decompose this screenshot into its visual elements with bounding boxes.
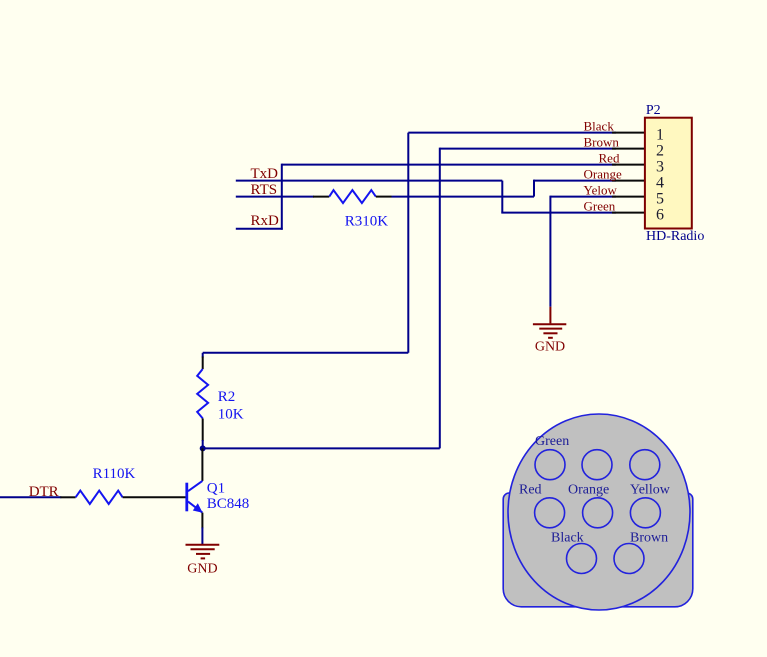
svg-text:GND: GND	[187, 562, 217, 577]
svg-text:R310K: R310K	[345, 214, 389, 230]
junction dot	[200, 445, 206, 451]
svg-text:TxD: TxD	[251, 166, 279, 182]
pin stub 4	[612, 180, 645, 182]
wire RxD stub	[236, 228, 283, 230]
svg-text:Brown: Brown	[630, 531, 668, 546]
resistor R2 zigzag	[197, 369, 208, 418]
wire TxD stub	[236, 180, 503, 182]
connector P2 body	[645, 118, 692, 229]
resistor R2 lead bottom	[202, 418, 204, 441]
svg-text:BC848: BC848	[207, 496, 250, 512]
ground symbol Q1 line3	[196, 553, 210, 555]
svg-text:1: 1	[656, 127, 664, 144]
pin hole top-center	[582, 450, 612, 480]
connector J1 face (DIN plug drawing) body rounded rect	[503, 493, 693, 607]
wire pin1 vertical drop	[407, 133, 409, 353]
svg-text:RTS: RTS	[251, 182, 278, 198]
svg-text:Green: Green	[535, 434, 569, 449]
svg-text:R110K: R110K	[93, 466, 136, 482]
svg-text:Orange: Orange	[568, 483, 609, 498]
wire R2 top corner	[202, 353, 204, 358]
ground symbol radio line4	[548, 337, 553, 339]
wire TxD to pin3	[282, 164, 616, 166]
pin stub 3	[612, 164, 645, 166]
wire to pin6	[501, 212, 616, 214]
wire emitter to ground	[201, 527, 203, 544]
transistor Q1 emitter arrow	[193, 503, 203, 512]
ground symbol radio line1	[533, 323, 566, 325]
svg-text:4: 4	[656, 175, 664, 192]
resistor R2 lead top	[202, 357, 204, 370]
resistor R3 zigzag	[329, 190, 376, 203]
transistor Q1 base bar	[185, 483, 188, 512]
svg-text:P2: P2	[646, 103, 661, 118]
svg-text:6: 6	[656, 207, 664, 224]
wire emitter	[201, 513, 203, 529]
wire pin2 vertical	[439, 148, 441, 449]
wire pin5 to GND vertical	[549, 196, 551, 307]
wire R2 to junction	[202, 440, 204, 448]
svg-text:GND: GND	[535, 340, 565, 355]
resistor R1 zigzag	[76, 491, 123, 504]
wire DTR	[0, 496, 61, 498]
wire vertical TxD drop	[501, 181, 503, 213]
svg-text:Brown: Brown	[584, 134, 620, 149]
pin stub 6	[612, 212, 645, 214]
ground symbol radio lead	[549, 307, 551, 324]
wire to pin2	[440, 148, 616, 150]
svg-text:3: 3	[656, 159, 664, 176]
wire to pin5	[550, 196, 616, 198]
wire to pin1	[408, 132, 616, 134]
wire to pin4	[534, 180, 616, 182]
pin hole Green	[535, 450, 565, 480]
svg-text:R2: R2	[218, 389, 236, 405]
transistor Q1 collector diagonal	[188, 481, 202, 491]
pin hole top-right	[630, 450, 660, 480]
resistor R3 lead left	[313, 196, 329, 198]
ground symbol Q1 line2	[191, 548, 215, 550]
pin hole Brown	[614, 544, 644, 574]
port bracket vertical	[281, 164, 283, 230]
ground symbol radio line2	[539, 328, 562, 330]
pin stub 5	[612, 196, 645, 198]
pin stub 1	[612, 132, 645, 134]
svg-text:Red: Red	[599, 150, 620, 165]
wire collector vertical	[201, 448, 203, 481]
ground symbol Q1 line1	[186, 544, 220, 546]
resistor R1 lead left	[60, 496, 75, 498]
svg-text:Green: Green	[584, 198, 616, 213]
resistor R3 lead right	[376, 196, 392, 198]
pin hole Red	[535, 498, 565, 528]
svg-text:10K: 10K	[218, 407, 244, 423]
pin hole Yellow	[630, 498, 660, 528]
transistor Q1 emitter diagonal	[188, 502, 202, 513]
pin stub 2	[612, 148, 645, 150]
wire RTS left segment	[236, 196, 314, 198]
wire junction to pin2 riser	[203, 447, 440, 449]
svg-text:HD-Radio: HD-Radio	[646, 229, 704, 244]
pin hole Orange	[583, 498, 613, 528]
svg-text:RxD: RxD	[251, 213, 280, 229]
wire RTS right segment	[392, 196, 535, 198]
wire horizontal to R2 top	[203, 352, 409, 354]
svg-text:Black: Black	[584, 118, 615, 133]
connector J1 face circular shell	[508, 414, 690, 610]
svg-text:Orange: Orange	[584, 166, 622, 181]
pin hole Black	[567, 544, 597, 574]
svg-text:Q1: Q1	[207, 480, 225, 496]
svg-text:Yelow: Yelow	[584, 182, 618, 197]
svg-text:Red: Red	[519, 483, 542, 498]
wire vertical RTS rise	[533, 180, 535, 197]
svg-text:Yellow: Yellow	[630, 483, 671, 498]
ground symbol Q1 line4	[201, 557, 206, 559]
resistor R1 lead right / base wire	[123, 496, 186, 498]
svg-text:Black: Black	[551, 531, 584, 546]
ground symbol radio line3	[543, 332, 557, 334]
svg-text:2: 2	[656, 143, 664, 160]
svg-text:5: 5	[656, 191, 664, 208]
